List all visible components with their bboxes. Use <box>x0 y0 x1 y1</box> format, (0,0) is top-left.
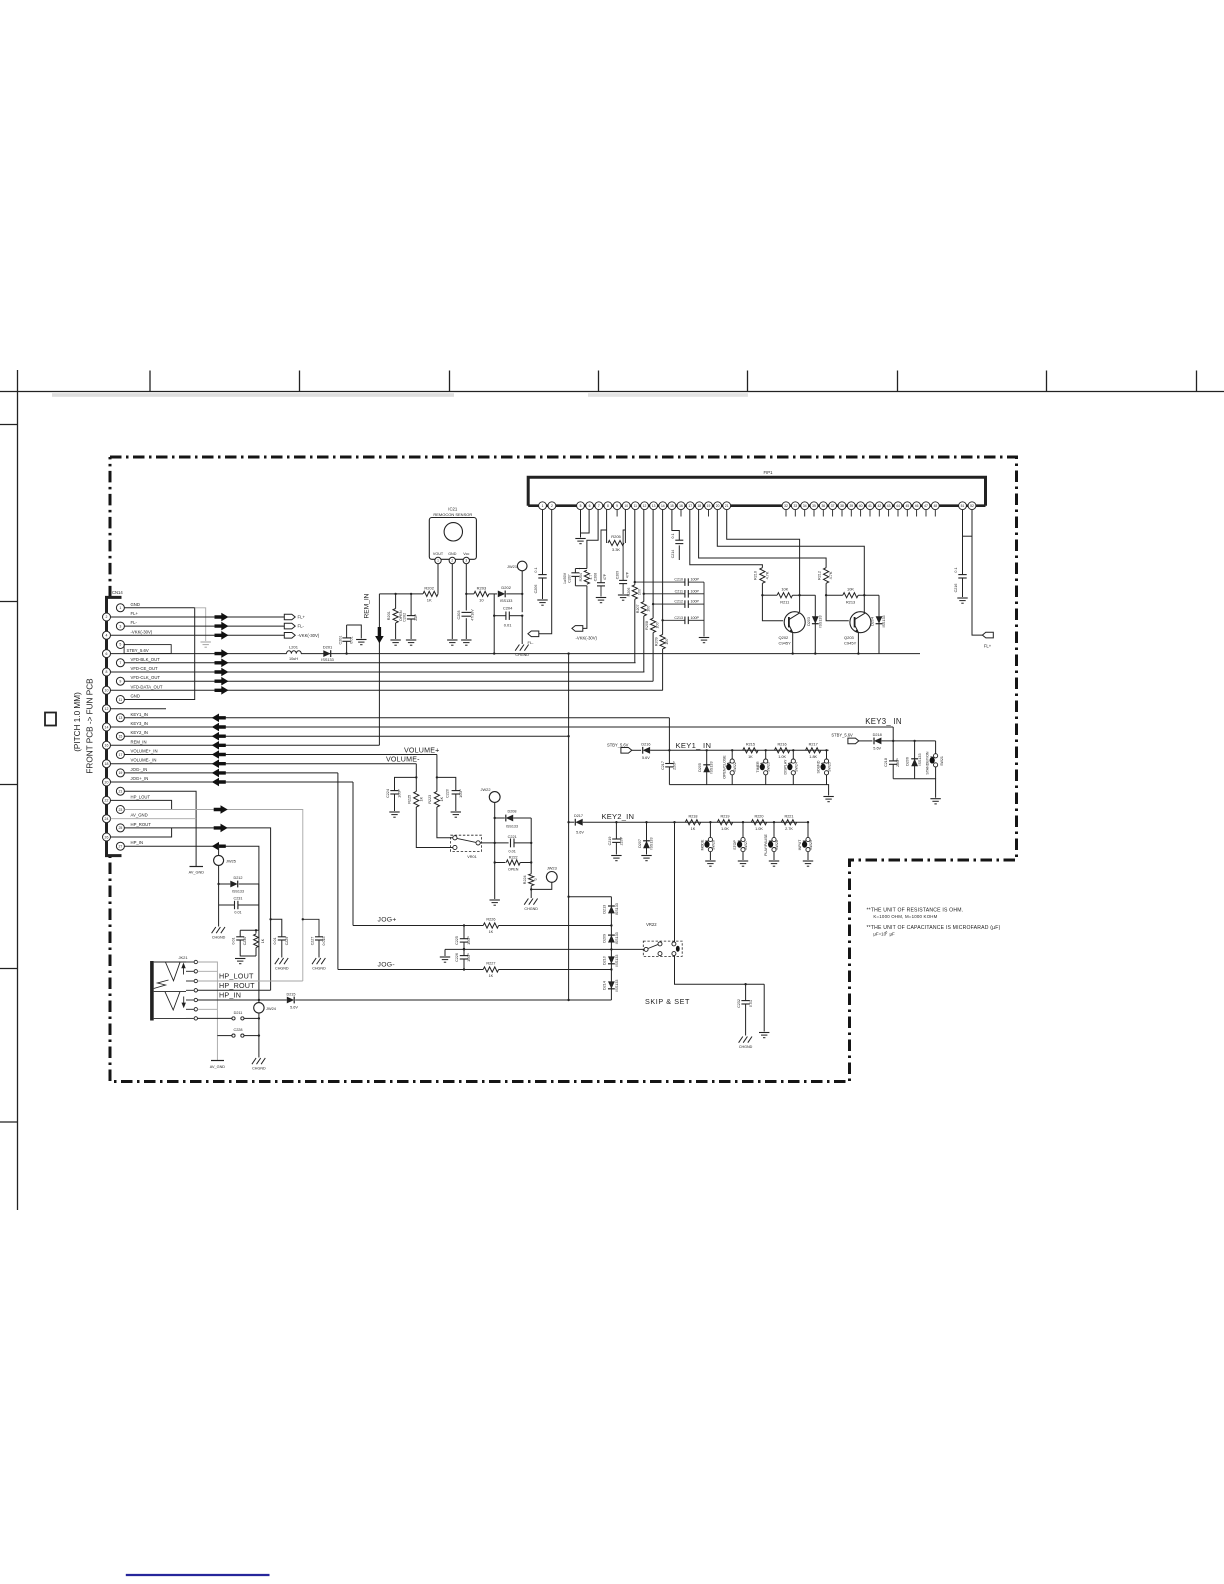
svg-text:R224: R224 <box>523 875 527 884</box>
svg-text:FIP1: FIP1 <box>763 470 773 475</box>
svg-text:SW28: SW28 <box>775 840 779 850</box>
svg-text:15: 15 <box>118 734 122 738</box>
svg-text:SOUND: SOUND <box>817 760 821 773</box>
svg-text:100P: 100P <box>691 589 700 593</box>
wire HP_IN row27 <box>124 842 259 1000</box>
svg-text:C206: C206 <box>534 585 538 594</box>
svg-text:VOLUME+_IN: VOLUME+_IN <box>131 749 158 754</box>
svg-text:1K: 1K <box>489 974 494 978</box>
svg-text:D201: D201 <box>323 645 333 650</box>
resistor R216 <box>774 743 789 759</box>
svg-text:3: 3 <box>119 624 121 628</box>
svg-text:25: 25 <box>118 826 122 830</box>
svg-text:100P: 100P <box>467 936 471 945</box>
svg-text:R207: R207 <box>636 604 640 613</box>
capacitor C227 <box>302 918 327 957</box>
svg-text:10: 10 <box>624 504 628 508</box>
svg-text:STANDBY/ON: STANDBY/ON <box>926 751 930 775</box>
CN14 pin 18 <box>103 758 157 768</box>
wire STBY rail row6 <box>111 649 921 658</box>
capacitor C207 <box>563 567 582 586</box>
svg-text:4: 4 <box>106 634 108 638</box>
svg-text:16: 16 <box>679 504 683 508</box>
wire FL+ row <box>111 613 285 622</box>
svg-text:ISS133: ISS133 <box>615 980 619 992</box>
svg-text:K=1000 OHM, M=1000 KOHM: K=1000 OHM, M=1000 KOHM <box>873 914 937 919</box>
wire KEY1 drop <box>668 718 670 752</box>
wire KEY3 drop <box>892 727 894 741</box>
svg-text:7: 7 <box>119 661 121 665</box>
page ruler horizontal line <box>0 391 1224 393</box>
svg-text:0: 0 <box>534 878 538 880</box>
tag FL+ (FIP pin52) <box>972 510 993 649</box>
CN14 pin 14 <box>103 721 148 731</box>
svg-text:10K: 10K <box>781 587 788 592</box>
svg-text:R225: R225 <box>408 795 412 804</box>
svg-text:100: 100 <box>637 589 641 595</box>
svg-text:R219: R219 <box>720 814 729 818</box>
resistor R206 <box>627 510 642 663</box>
svg-text:ISS133: ISS133 <box>818 615 822 627</box>
capacitor C219 <box>608 821 624 861</box>
registration square <box>45 713 56 726</box>
svg-text:C230: C230 <box>243 937 247 946</box>
IC21 REMOCON SENSOR <box>429 507 476 564</box>
switch SW25 SOUND <box>817 749 832 785</box>
diode D209 <box>602 932 619 944</box>
svg-text:R211: R211 <box>780 600 789 605</box>
resistor R213 <box>826 587 879 605</box>
switch SW24 DISPLAY <box>784 749 799 785</box>
svg-text:12: 12 <box>643 504 647 508</box>
svg-text:10K: 10K <box>847 587 854 592</box>
svg-text:D215: D215 <box>286 992 295 996</box>
svg-text:SW29: SW29 <box>809 840 813 850</box>
svg-text:AV_GND: AV_GND <box>210 1065 226 1069</box>
svg-text:FL+: FL+ <box>984 643 992 648</box>
svg-text:1.0K: 1.0K <box>721 827 729 831</box>
chassis ground CHGND (C232) <box>739 1037 753 1050</box>
svg-text:D206: D206 <box>905 757 909 766</box>
svg-text:D212: D212 <box>233 876 242 880</box>
svg-text:0.01: 0.01 <box>273 938 277 945</box>
svg-text:D213: D213 <box>602 905 606 914</box>
svg-text:37: 37 <box>831 504 835 508</box>
svg-text:11: 11 <box>119 698 123 702</box>
CN14 pin 13 <box>116 712 148 722</box>
capacitor C201 <box>339 625 367 655</box>
open jumper D211 <box>198 1011 259 1020</box>
svg-text:6: 6 <box>106 652 108 656</box>
svg-text:C202: C202 <box>403 613 407 622</box>
capacitor C216 (FIP pin51) <box>954 510 972 604</box>
capacitor C212 <box>652 600 704 608</box>
svg-text:KEY3_ IN: KEY3_ IN <box>865 717 902 726</box>
diode D213 <box>602 903 619 915</box>
svg-text:100P: 100P <box>691 600 700 604</box>
svg-text:D203: D203 <box>807 617 811 626</box>
svg-text:100P: 100P <box>467 953 471 962</box>
wire JOG+ row <box>353 782 611 927</box>
svg-text:43: 43 <box>887 504 891 508</box>
capacitor C211 <box>643 589 704 597</box>
svg-text:R215: R215 <box>746 743 755 747</box>
svg-text:9: 9 <box>119 679 121 683</box>
svg-text:HP_ROUT: HP_ROUT <box>131 822 152 827</box>
svg-text:R223: R223 <box>428 795 432 804</box>
svg-text:VOLUME-: VOLUME- <box>386 755 420 763</box>
svg-text:C211: C211 <box>675 589 683 593</box>
CN14 pin 11 <box>116 694 140 704</box>
wire VOLUME- drop <box>415 764 417 792</box>
svg-text:1: 1 <box>542 504 544 508</box>
svg-text:26: 26 <box>105 835 109 839</box>
svg-text:1K: 1K <box>261 938 265 943</box>
svg-text:SW24: SW24 <box>794 762 798 772</box>
diode D216 <box>641 742 828 760</box>
svg-text:17: 17 <box>118 753 122 757</box>
chassis ground CHGND (JW24) <box>252 1058 266 1071</box>
svg-text:R216: R216 <box>778 743 787 747</box>
svg-text:R202: R202 <box>424 585 434 590</box>
ruler left ticks <box>0 425 18 1123</box>
svg-text:14: 14 <box>661 504 665 508</box>
node KEY1_IN label <box>676 741 712 750</box>
svg-text:1K: 1K <box>748 755 753 759</box>
svg-text:22: 22 <box>105 799 109 803</box>
svg-text:5: 5 <box>119 643 121 647</box>
switch SW29 INPUT <box>798 821 813 866</box>
svg-text:ISS133: ISS133 <box>615 903 619 915</box>
wire VOLUME+_IN row <box>124 750 437 759</box>
svg-text:CHGND: CHGND <box>312 967 326 971</box>
switch SW23 TIMER <box>756 749 771 785</box>
resistor R204 <box>579 570 593 584</box>
capacitor C231 <box>219 897 259 915</box>
CN14 pin 2 <box>103 611 139 621</box>
diode D203 <box>807 595 823 655</box>
capacitor C214 <box>671 510 684 560</box>
svg-text:JK21: JK21 <box>178 955 188 960</box>
ruler shadow bands <box>52 393 748 397</box>
jumper JW23 <box>531 865 557 889</box>
svg-text:REM_IN: REM_IN <box>131 739 147 744</box>
svg-text:R213: R213 <box>846 600 855 605</box>
svg-text:CHGND: CHGND <box>275 967 289 971</box>
svg-text:15: 15 <box>670 504 674 508</box>
svg-text:STOP: STOP <box>733 840 737 850</box>
svg-text:-VKK(-30V): -VKK(-30V) <box>298 633 320 638</box>
wire FIP pin7 to -VKK branch <box>575 510 598 629</box>
svg-text:18: 18 <box>105 762 109 766</box>
CN14 pin 23 <box>116 806 124 814</box>
wire FIP pin18 to R212 <box>699 510 827 568</box>
CN14 pin 10 <box>103 684 163 694</box>
svg-text:ISS133: ISS133 <box>321 658 333 662</box>
svg-text:0.1: 0.1 <box>534 567 538 572</box>
resistor R226 <box>483 918 498 935</box>
switch SW27 STOP <box>733 821 748 866</box>
svg-text:INPUT: INPUT <box>798 839 802 851</box>
capacitor C229 <box>269 918 288 957</box>
note resistance units <box>867 908 964 920</box>
wire JOG- row <box>338 773 612 971</box>
caption (PITCH 1.0 MM) <box>73 692 82 752</box>
diode D207 <box>638 821 654 861</box>
svg-text:ISS133: ISS133 <box>500 599 512 603</box>
svg-text:100P: 100P <box>397 789 401 798</box>
ground (C230/R228) <box>235 959 245 964</box>
svg-text:5.6V: 5.6V <box>576 831 584 835</box>
connector FIP1 box <box>528 470 985 506</box>
svg-text:VFD-CE_OUT: VFD-CE_OUT <box>131 666 159 671</box>
svg-text:38: 38 <box>840 504 844 508</box>
svg-text:4.7K: 4.7K <box>765 571 769 579</box>
svg-text:10: 10 <box>479 598 484 603</box>
svg-text:FL+: FL+ <box>131 611 139 616</box>
ground (KEY1 bus) <box>823 797 833 802</box>
svg-text:R210: R210 <box>754 571 758 580</box>
CN14 pin 4 <box>103 629 153 639</box>
svg-text:5: 5 <box>580 504 582 508</box>
diode D218 <box>873 733 936 751</box>
node REM_IN <box>364 593 384 745</box>
svg-text:0.015: 0.015 <box>322 937 326 946</box>
wire REM_IN row <box>111 741 380 750</box>
svg-text:C210: C210 <box>674 578 683 582</box>
svg-text:9: 9 <box>616 504 618 508</box>
svg-text:C220: C220 <box>446 789 450 798</box>
svg-text:100P: 100P <box>691 578 700 582</box>
caption FRONT PCB -> FUN PCB <box>86 678 95 774</box>
svg-text:R221: R221 <box>784 814 793 818</box>
svg-text:ISS133: ISS133 <box>232 889 244 893</box>
svg-text:CHGND: CHGND <box>524 907 538 911</box>
svg-text:-VKK(-30V): -VKK(-30V) <box>576 635 598 640</box>
svg-text:3.3K: 3.3K <box>612 547 621 552</box>
wire VFD row 8 <box>111 668 645 677</box>
switch SW26 MODE <box>701 821 716 866</box>
wire diode column <box>610 897 612 1000</box>
diode D206 <box>905 740 921 779</box>
wire HP_ROUT row <box>198 989 271 991</box>
svg-text:19: 19 <box>707 504 711 508</box>
svg-text:STBY_5.6V: STBY_5.6V <box>127 648 149 653</box>
transistor Q202 <box>779 612 806 655</box>
svg-text:13: 13 <box>118 716 122 720</box>
rotary encoder VR22 <box>643 922 682 957</box>
svg-text:46: 46 <box>915 504 919 508</box>
CN14 pin 22 <box>103 794 151 804</box>
svg-text:R212: R212 <box>817 571 821 580</box>
node VOLUME+ label <box>404 747 440 755</box>
svg-text:2: 2 <box>451 559 453 563</box>
svg-text:4.7K: 4.7K <box>829 571 833 579</box>
svg-text:47P: 47P <box>625 571 629 578</box>
resistor R218 <box>685 814 700 831</box>
svg-text:-VKK(-30V): -VKK(-30V) <box>131 629 153 634</box>
resistor R201 <box>387 593 403 646</box>
wire JOG+_IN row <box>111 778 354 787</box>
diode D214 <box>602 980 619 992</box>
svg-text:**THE UNIT OF RESISTANCE IS OH: **THE UNIT OF RESISTANCE IS OHM. <box>867 908 964 914</box>
svg-text:FL-: FL- <box>131 620 138 625</box>
svg-text:ISS133: ISS133 <box>882 615 886 627</box>
resistor R212 <box>817 568 849 621</box>
node VOLUME- label <box>386 755 420 763</box>
resistor R215 <box>743 743 758 759</box>
svg-text:GND: GND <box>448 552 457 556</box>
tag FL- <box>284 623 304 629</box>
svg-text:8: 8 <box>106 670 108 674</box>
FIP1 pin stubs <box>617 510 935 517</box>
wire KEY2_IN row <box>124 732 568 741</box>
svg-text:52: 52 <box>970 504 974 508</box>
svg-text:0.01: 0.01 <box>749 1000 753 1007</box>
svg-text:23: 23 <box>118 808 122 812</box>
wire KEY1_IN row <box>124 714 669 723</box>
svg-text:47: 47 <box>924 504 928 508</box>
svg-text:19: 19 <box>118 771 122 775</box>
svg-text:REM_IN: REM_IN <box>364 593 371 618</box>
svg-text:JW21: JW21 <box>507 564 517 569</box>
svg-text:HP_ROUT: HP_ROUT <box>219 981 255 990</box>
wire HP_IN bottom row <box>198 999 612 1001</box>
svg-text:ISS133: ISS133 <box>506 824 518 828</box>
svg-text:IC21: IC21 <box>448 507 458 512</box>
wire KEY2 to encoder <box>673 821 675 942</box>
svg-text:D205: D205 <box>698 763 702 772</box>
svg-text:C229: C229 <box>285 937 289 946</box>
svg-text:JOG-: JOG- <box>378 961 395 968</box>
CN14 pin 3 <box>116 620 137 630</box>
svg-text:OPEN/CLOSE: OPEN/CLOSE <box>722 755 726 779</box>
wire VFD row 9 <box>124 677 653 686</box>
switch SW28 PLAY/PAUSE <box>764 821 779 866</box>
svg-text:REMOCON SENSOR: REMOCON SENSOR <box>433 512 472 517</box>
svg-text:18: 18 <box>697 504 701 508</box>
switch SW22 OPEN/CLOSE <box>722 749 737 785</box>
ground (JW22 line) <box>490 900 500 905</box>
resistor R217 <box>806 743 821 759</box>
PCB outline border (dash-dot) <box>110 457 1017 1082</box>
CN14 pin 17 <box>116 749 157 759</box>
open capacitor C228 <box>217 1028 259 1037</box>
footer rule <box>126 1574 270 1576</box>
CN14 pin 21 <box>116 787 124 795</box>
resistor R209 <box>655 510 670 691</box>
svg-text:Q202: Q202 <box>779 635 790 640</box>
page ruler vertical line <box>17 370 19 1210</box>
wire FIP pin17 to R210 <box>690 510 763 568</box>
diode D210 <box>602 955 619 967</box>
CN14 pin 7 <box>116 657 160 667</box>
capacitor C220 <box>437 777 463 817</box>
svg-text:CHGND: CHGND <box>515 653 529 657</box>
svg-text:VOLUME+: VOLUME+ <box>404 747 440 755</box>
node HP_LOUT label <box>219 972 254 981</box>
svg-text:1K: 1K <box>691 827 696 831</box>
svg-text:C213: C213 <box>674 616 683 620</box>
svg-text:1K: 1K <box>440 796 444 801</box>
tag -VKK(-30V) (FIP) <box>572 626 598 641</box>
CN14 pin 20 <box>103 776 149 786</box>
FIP1 pin circles <box>539 502 976 510</box>
svg-text:JOG+_IN: JOG+_IN <box>131 776 149 781</box>
svg-text:FRONT PCB -> FUN PCB: FRONT PCB -> FUN PCB <box>86 678 95 774</box>
svg-text:C945Y: C945Y <box>844 641 857 646</box>
svg-text:1: 1 <box>119 606 121 610</box>
svg-text:8: 8 <box>607 504 609 508</box>
svg-text:SKIP & SET: SKIP & SET <box>645 997 690 1006</box>
svg-text:47/16V: 47/16V <box>471 609 475 621</box>
svg-text:GND: GND <box>131 602 140 607</box>
svg-text:13: 13 <box>652 504 656 508</box>
node HP_IN label <box>219 991 241 1000</box>
capacitor C208 <box>593 510 607 603</box>
svg-text:R206: R206 <box>627 588 631 597</box>
svg-text:VOUT: VOUT <box>433 552 444 556</box>
CN14 pin 16 <box>103 739 147 749</box>
CN14 pin 5 <box>116 641 124 649</box>
chassis ground CHGND (R224) <box>524 899 538 912</box>
tag -VKK(-30V) <box>284 633 320 639</box>
svg-text:C218: C218 <box>884 758 888 767</box>
potentiometer VR01 <box>451 835 482 859</box>
svg-text:47P: 47P <box>603 573 607 580</box>
resistor R222 <box>495 855 532 871</box>
svg-text:16: 16 <box>105 744 109 748</box>
svg-text:C216: C216 <box>954 584 958 593</box>
resistor R211 <box>762 587 815 605</box>
wire HP_LOUT row <box>198 980 303 982</box>
svg-text:D208: D208 <box>507 810 516 814</box>
svg-text:ISS133: ISS133 <box>710 761 714 773</box>
svg-text:SW23: SW23 <box>767 762 771 772</box>
resistor R208 <box>645 510 660 682</box>
svg-text:HP_IN: HP_IN <box>131 840 144 845</box>
svg-text:MODE: MODE <box>701 839 705 850</box>
svg-text:48: 48 <box>933 504 937 508</box>
wire -VKK(-30V) row <box>111 631 285 640</box>
svg-text:5.6V: 5.6V <box>642 756 650 760</box>
svg-text:OPEN: OPEN <box>508 868 519 872</box>
capacitor C225 <box>455 926 471 950</box>
switch SW21 STANDBY/ON <box>926 741 944 779</box>
wire FIP pin20 to Q203 collector <box>717 510 864 612</box>
svg-text:R204: R204 <box>579 573 583 581</box>
capacitor C213 <box>661 616 704 624</box>
svg-text:R201: R201 <box>387 611 391 620</box>
wire FIP pin21 to Q202 collector <box>727 510 800 612</box>
svg-text:0.01: 0.01 <box>234 910 241 914</box>
svg-text:D216: D216 <box>641 742 650 746</box>
svg-text:KEY3_IN: KEY3_IN <box>131 721 148 726</box>
svg-text:C209: C209 <box>616 571 620 579</box>
CN14 pin 24 <box>103 813 148 823</box>
svg-text:AV_GND: AV_GND <box>131 813 148 818</box>
svg-text:FL+: FL+ <box>298 615 306 620</box>
svg-text:100: 100 <box>646 606 650 612</box>
svg-text:C204: C204 <box>503 606 513 611</box>
diode D208 <box>495 810 532 829</box>
svg-text:35: 35 <box>812 504 816 508</box>
svg-text:CN14: CN14 <box>112 590 123 595</box>
svg-text:SW25: SW25 <box>828 762 832 772</box>
capacitor C209 <box>616 510 630 601</box>
node HP_ROUT label <box>219 981 255 990</box>
diode D215 <box>286 992 298 1009</box>
